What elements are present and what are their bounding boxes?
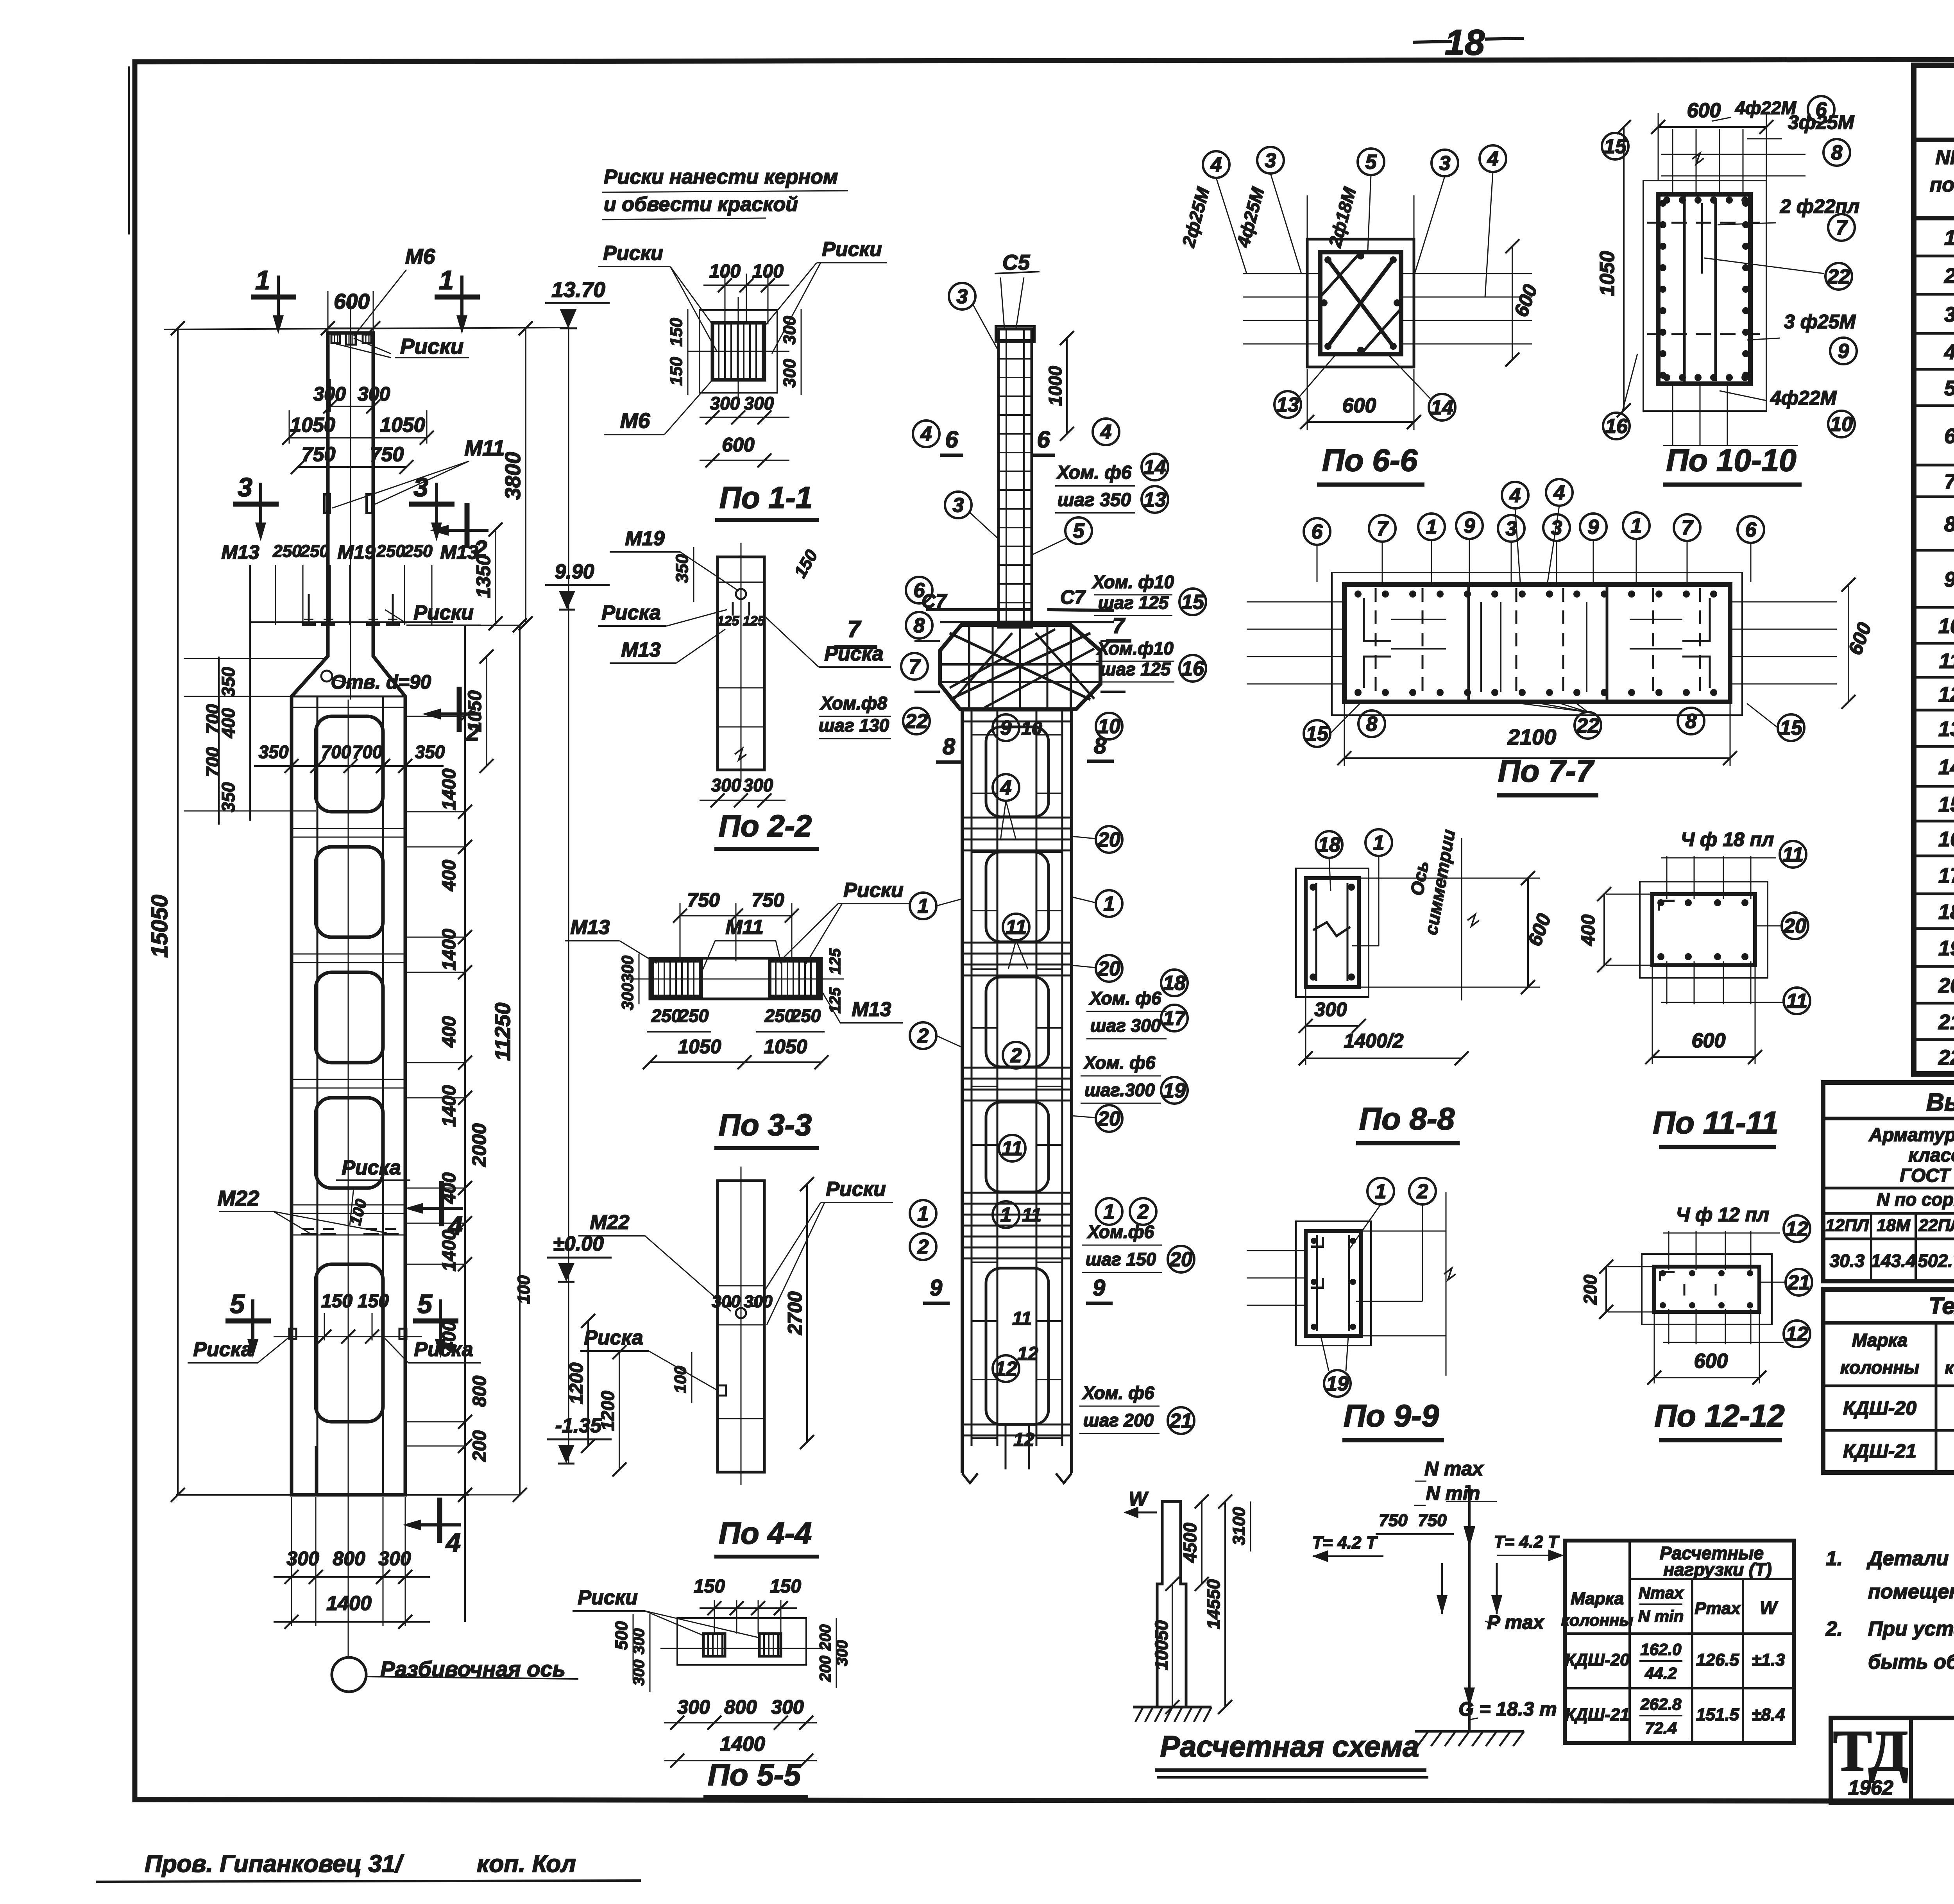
circle 20 right b — [1096, 955, 1122, 982]
svg-text:1050: 1050 — [380, 414, 425, 437]
svg-text:19: 19 — [1326, 1373, 1349, 1395]
svg-text:150: 150 — [321, 1291, 353, 1312]
svg-text:13.70: 13.70 — [551, 277, 605, 302]
svg-text:шаг.300: шаг.300 — [1084, 1080, 1155, 1100]
Po12-12 witness verticals bottom — [1668, 1309, 1669, 1344]
svg-text:6: 6 — [1312, 521, 1323, 543]
svg-text:М19: М19 — [337, 541, 375, 563]
svg-text:600: 600 — [722, 434, 755, 456]
svg-text:шаг 125: шаг 125 — [1100, 659, 1171, 679]
svg-text:21: 21 — [1787, 1271, 1810, 1294]
svg-text:2: 2 — [917, 1236, 929, 1258]
bottom stub outline — [315, 1446, 317, 1495]
circle 5 right — [1065, 517, 1092, 544]
svg-text:18: 18 — [1318, 834, 1340, 856]
svg-text:N min: N min — [1638, 1607, 1684, 1625]
svg-text:250: 250 — [272, 542, 302, 561]
svg-text:126.5: 126.5 — [1696, 1650, 1739, 1670]
svg-text:750: 750 — [370, 443, 404, 466]
svg-text:11: 11 — [1022, 1205, 1041, 1226]
level mark chain vertical — [568, 311, 569, 1464]
svg-text:1: 1 — [1000, 1204, 1012, 1226]
svg-text:помещены в выпуске I.: помещены в выпуске I. — [1868, 1580, 1954, 1603]
svg-text:1050: 1050 — [678, 1036, 721, 1058]
svg-text:300: 300 — [710, 393, 740, 413]
svg-text:5: 5 — [1944, 377, 1954, 400]
svg-text:300: 300 — [677, 1696, 710, 1718]
svg-text:150: 150 — [770, 1576, 801, 1597]
Po10-10 circle 16 — [1603, 413, 1630, 439]
svg-text:М13: М13 — [852, 998, 891, 1021]
svg-text:КДШ-21: КДШ-21 — [1843, 1440, 1916, 1462]
section Po10-10 outer rect — [1658, 194, 1750, 384]
svg-text:Риски: Риски — [843, 879, 904, 902]
svg-text:Риски: Риски — [578, 1586, 638, 1609]
svg-text:Расчетная схема: Расчетная схема — [1160, 1730, 1419, 1763]
Po10-10 inner verticals — [1683, 194, 1686, 384]
dimension 1350 vertical — [495, 530, 496, 623]
svg-text:3: 3 — [1944, 303, 1954, 326]
svg-text:200: 200 — [469, 1430, 490, 1462]
Po4-4 riska marks — [724, 1297, 730, 1306]
circle 11 on cage b — [999, 1135, 1025, 1161]
calc scheme ground left — [1133, 1706, 1211, 1709]
svg-text:Риски нанести керном: Риски нанести керном — [604, 166, 838, 188]
svg-text:4: 4 — [1553, 481, 1565, 504]
hole Otv d90 — [321, 671, 332, 682]
svg-text:250: 250 — [403, 542, 433, 561]
Po2-2 squiggle — [735, 748, 746, 760]
Po10-10 witness grid top — [1672, 129, 1673, 195]
svg-text:143.4: 143.4 — [1871, 1251, 1916, 1271]
svg-text:13: 13 — [1938, 718, 1954, 741]
wide part top inner lines — [292, 707, 405, 708]
svg-text:8: 8 — [1831, 141, 1843, 164]
tech-econ indicators table — [1823, 1290, 1954, 1473]
svg-text:17: 17 — [1938, 864, 1954, 888]
section mark 2 right upper — [465, 503, 470, 548]
Po8-8 dim 600 — [1527, 878, 1529, 987]
svg-text:7: 7 — [1836, 217, 1848, 239]
svg-text:11: 11 — [1786, 990, 1807, 1013]
svg-text:1200: 1200 — [566, 1362, 587, 1404]
svg-text:12ПЛ: 12ПЛ — [1825, 1216, 1869, 1235]
svg-text:Хом.ф8: Хом.ф8 — [820, 693, 888, 713]
opening 3 — [316, 972, 383, 1063]
section Po11-11 outer rect — [1652, 894, 1755, 965]
spec table title underline row line — [1914, 138, 1954, 142]
svg-text:Риска: Риска — [584, 1326, 643, 1349]
svg-text:14550: 14550 — [1203, 1579, 1224, 1629]
circle 2 right c — [1130, 1198, 1156, 1225]
Po6-6 dim 600 right — [1512, 246, 1513, 360]
svg-text:По 8-8: По 8-8 — [1359, 1101, 1455, 1136]
svg-text:125: 125 — [827, 948, 844, 974]
svg-text:коп. Кол: коп. Кол — [477, 1850, 576, 1877]
svg-text:Риска: Риска — [342, 1156, 401, 1179]
Po4-4 dim 2700 right — [806, 1184, 808, 1442]
anchor M11 marks on shaft — [324, 494, 330, 513]
svg-text:3: 3 — [1265, 149, 1276, 172]
svg-text:800: 800 — [469, 1376, 490, 1407]
svg-text:125 125: 125 125 — [717, 614, 766, 628]
svg-text:15: 15 — [1181, 591, 1204, 614]
svg-text:5: 5 — [417, 1289, 433, 1319]
svg-text:T= 4.2 Т: T= 4.2 Т — [1312, 1533, 1378, 1552]
Po7-7 right witness lines — [1730, 601, 1837, 603]
circle 21 right — [1168, 1407, 1194, 1434]
svg-text:3: 3 — [957, 285, 968, 308]
svg-text:14: 14 — [1143, 456, 1166, 479]
witness lines to right dim chain — [406, 716, 465, 717]
svg-text:Марка: Марка — [1852, 1330, 1907, 1350]
Po10-10 squiggle — [1692, 153, 1704, 164]
Po1-1 center dashdot — [688, 351, 789, 352]
svg-text:4500: 4500 — [1180, 1523, 1200, 1563]
svg-text:колонны: колонны — [1561, 1611, 1634, 1629]
svg-text:12: 12 — [1786, 1218, 1808, 1240]
svg-text:ТД: ТД — [1833, 1718, 1909, 1783]
svg-text:12: 12 — [995, 1358, 1017, 1380]
svg-text:4ф22М: 4ф22М — [1770, 387, 1837, 409]
svg-text:КДШ-21: КДШ-21 — [1565, 1705, 1630, 1724]
svg-text:2: 2 — [1417, 1180, 1428, 1203]
circle 4 right mid — [1093, 419, 1119, 445]
Po12-12 dim 200 left — [1605, 1267, 1607, 1312]
dimension 3800 vertical — [525, 328, 526, 623]
svg-text:22ПЛ: 22ПЛ — [1918, 1216, 1954, 1235]
Po9-9 circle 19 — [1324, 1370, 1351, 1397]
section mark 7 near Po2-2 — [834, 645, 877, 649]
calc scheme dim 14550 — [1224, 1501, 1226, 1707]
svg-text:3: 3 — [953, 494, 964, 517]
svg-text:T= 4.2 Т: T= 4.2 Т — [1494, 1532, 1559, 1551]
svg-text:3: 3 — [1439, 152, 1451, 175]
Po2-2 M19 tube mark — [736, 589, 746, 599]
svg-text:9: 9 — [930, 1275, 942, 1301]
svg-text:1400: 1400 — [720, 1733, 765, 1755]
svg-text:5: 5 — [1365, 151, 1377, 174]
svg-text:200: 200 — [817, 1625, 834, 1651]
svg-text:Риска: Риска — [601, 601, 660, 624]
svg-text:М6: М6 — [405, 244, 435, 268]
circle 22 left — [903, 708, 930, 734]
calc scheme right column line — [1468, 1485, 1471, 1731]
Po6-6 circle 14 — [1429, 394, 1455, 421]
svg-text:4: 4 — [1487, 148, 1499, 170]
cage rung bands — [962, 710, 1072, 712]
svg-text:300: 300 — [711, 775, 741, 795]
Po10-10 dashed mid lines — [1647, 222, 1763, 224]
Po9-9 inner bars — [1316, 1235, 1318, 1331]
svg-text:10050: 10050 — [1151, 1620, 1172, 1670]
level line top of column — [164, 327, 569, 329]
svg-text:6: 6 — [945, 426, 958, 453]
cage head inner bracing — [950, 633, 1090, 700]
svg-text:3 ф25М: 3 ф25М — [1784, 311, 1856, 333]
svg-text:4: 4 — [1509, 484, 1521, 507]
svg-text:М19: М19 — [625, 527, 664, 550]
cage head capital outline — [940, 625, 1100, 709]
svg-text:1400/2: 1400/2 — [1344, 1030, 1404, 1052]
svg-text:18: 18 — [1938, 900, 1954, 924]
svg-text:1: 1 — [1373, 832, 1385, 854]
svg-text:20: 20 — [1097, 957, 1120, 980]
Po4-4 dim 1200 left — [619, 1352, 620, 1469]
svg-text:250: 250 — [678, 1006, 709, 1026]
circle 1 left a — [910, 893, 936, 919]
svg-text:11: 11 — [1939, 650, 1954, 673]
Po7-7 bottom circles — [1304, 720, 1330, 747]
circle 7 head left — [901, 653, 928, 680]
cage bottom forks — [962, 1473, 978, 1483]
section Po8-8 outer rect — [1306, 878, 1359, 987]
svg-text:Ч ф 12 пл: Ч ф 12 пл — [1676, 1204, 1770, 1226]
Po6-6 top circles — [1203, 151, 1229, 178]
cage top column ladder — [998, 329, 1032, 627]
svg-text:500: 500 — [612, 1621, 631, 1650]
gap lines between openings — [292, 828, 405, 829]
circle 6 head left — [906, 577, 932, 603]
svg-text:М22: М22 — [590, 1211, 629, 1234]
section mark 1 left — [251, 295, 296, 300]
svg-text:8: 8 — [943, 734, 956, 759]
title block outer — [1831, 1718, 1954, 1803]
svg-text:502.7: 502.7 — [1918, 1251, 1954, 1271]
circle 4 on cage — [993, 774, 1019, 801]
svg-text:М11: М11 — [725, 916, 763, 939]
opening 2 — [316, 847, 383, 937]
svg-text:Nmax: Nmax — [1639, 1584, 1684, 1602]
svg-text:20: 20 — [1169, 1248, 1192, 1271]
svg-text:М13: М13 — [621, 639, 660, 661]
svg-text:W: W — [1129, 1488, 1149, 1510]
svg-text:6: 6 — [1944, 424, 1954, 448]
calc scheme dim 10050 — [1172, 1584, 1173, 1707]
svg-text:КДШ-20: КДШ-20 — [1843, 1397, 1916, 1419]
calc scheme dim 4500 — [1201, 1501, 1202, 1584]
right dim chain line — [464, 625, 466, 1622]
section Po6-6 outer square — [1307, 239, 1414, 367]
column axis line — [350, 297, 351, 700]
section mark 4 right lower — [437, 1498, 442, 1543]
calc scheme ground right — [1415, 1730, 1524, 1733]
svg-text:1050: 1050 — [764, 1036, 807, 1058]
svg-text:колонны: колонны — [1840, 1357, 1919, 1378]
svg-text:100: 100 — [671, 1366, 689, 1393]
Po11-11 bar dots — [1657, 899, 1664, 906]
svg-text:11250: 11250 — [490, 1002, 515, 1061]
svg-text:600: 600 — [334, 289, 370, 313]
svg-text:300: 300 — [358, 383, 390, 405]
haunch horizontal witness lines — [184, 658, 328, 659]
svg-text:и обвести краской: и обвести краской — [604, 193, 798, 216]
svg-text:8: 8 — [1944, 513, 1954, 536]
svg-text:4: 4 — [1210, 154, 1222, 176]
svg-text:6: 6 — [1037, 426, 1050, 453]
svg-text:1: 1 — [1426, 516, 1437, 539]
svg-text:600: 600 — [1342, 394, 1376, 417]
svg-text:11: 11 — [1006, 916, 1027, 939]
svg-text:7: 7 — [909, 655, 921, 678]
opening 4 — [316, 1098, 383, 1188]
circle 17 far right — [1161, 1005, 1188, 1031]
svg-text:Риски: Риски — [826, 1178, 886, 1201]
circle 12 on cage — [993, 1355, 1019, 1382]
circle 13 right — [1142, 486, 1168, 513]
svg-text:По 2-2: По 2-2 — [719, 809, 812, 843]
svg-text:Хом. ф6: Хом. ф6 — [1089, 988, 1161, 1008]
cage shaft outer double lines — [961, 709, 964, 1473]
svg-text:1.: 1. — [1826, 1547, 1843, 1570]
svg-text:4: 4 — [1000, 777, 1012, 799]
Po6-6 diagonals — [1328, 260, 1393, 346]
svg-text:По 6-6: По 6-6 — [1322, 443, 1418, 478]
level line top of wide part — [178, 766, 254, 766]
svg-text:250: 250 — [764, 1006, 795, 1026]
Po10-10 bottom witness lines — [1672, 385, 1673, 446]
svg-text:12: 12 — [1013, 1430, 1034, 1450]
svg-text:Хом. ф6: Хом. ф6 — [1083, 1052, 1156, 1073]
Po8-8 circles 18 1 — [1316, 831, 1342, 858]
svg-text:1: 1 — [1631, 515, 1642, 537]
svg-text:300: 300 — [744, 393, 774, 413]
svg-text:150: 150 — [667, 318, 686, 347]
svg-text:М11: М11 — [465, 436, 505, 460]
svg-text:44.2: 44.2 — [1644, 1664, 1677, 1682]
svg-text:150: 150 — [667, 357, 686, 386]
section Po9-9 outer rect — [1306, 1231, 1361, 1336]
svg-text:При установке трубок М19 и: При установке трубок М19 и М22 анкеры до… — [1868, 1618, 1954, 1640]
svg-text:9: 9 — [1588, 516, 1599, 539]
section mark 3 left — [233, 502, 279, 507]
svg-text:1962: 1962 — [1848, 1777, 1893, 1799]
svg-text:6: 6 — [1745, 519, 1757, 541]
Po6-6 witness lines — [1243, 273, 1320, 274]
svg-text:400: 400 — [1578, 914, 1599, 946]
svg-text:9: 9 — [1093, 1275, 1105, 1301]
Po10-10 circle 15 — [1602, 133, 1628, 159]
Po12-12 witness rect — [1642, 1254, 1772, 1324]
svg-text:1400: 1400 — [326, 1592, 372, 1615]
svg-text:1400: 1400 — [439, 1085, 460, 1127]
svg-text:20: 20 — [1097, 829, 1120, 851]
svg-text:300: 300 — [780, 359, 799, 388]
svg-text:750: 750 — [302, 443, 336, 466]
svg-text:Pmax: Pmax — [1695, 1599, 1741, 1618]
svg-text:700: 700 — [202, 747, 223, 777]
axis circle and label — [332, 1657, 366, 1692]
svg-text:9: 9 — [1944, 568, 1954, 591]
section mark 5 left — [225, 1319, 271, 1324]
svg-text:150: 150 — [694, 1576, 725, 1597]
svg-text:300: 300 — [313, 383, 346, 405]
svg-text:162.0: 162.0 — [1640, 1640, 1681, 1659]
svg-text:КДШ-20: КДШ-20 — [1565, 1650, 1630, 1670]
svg-text:30.3: 30.3 — [1830, 1251, 1865, 1271]
svg-text:400: 400 — [439, 1016, 460, 1048]
svg-text:шаг 130: шаг 130 — [819, 715, 889, 735]
svg-text:N min: N min — [1426, 1482, 1480, 1504]
svg-text:72.4: 72.4 — [1645, 1719, 1677, 1737]
svg-text:1: 1 — [255, 265, 270, 295]
steel table subheader band — [1823, 1187, 1954, 1190]
svg-text:12: 12 — [1017, 1344, 1038, 1364]
svg-text:4: 4 — [920, 423, 932, 446]
dimension 11250 vertical — [519, 625, 521, 1495]
Po9-9 witness lines — [1247, 1250, 1306, 1251]
svg-text:8: 8 — [1094, 733, 1107, 759]
circle 9 on cage — [993, 714, 1019, 741]
svg-text:NN: NN — [1935, 146, 1954, 169]
witness lines M13 group — [275, 565, 276, 625]
svg-text:1: 1 — [1944, 226, 1954, 250]
svg-text:151.5: 151.5 — [1696, 1705, 1739, 1724]
svg-text:150: 150 — [358, 1291, 389, 1312]
svg-text:G = 18.3 т: G = 18.3 т — [1458, 1698, 1557, 1720]
svg-text:18М: 18М — [1877, 1216, 1911, 1235]
svg-text:1050: 1050 — [290, 414, 335, 437]
svg-text:2700: 2700 — [784, 1291, 806, 1335]
left dim chain verticals — [177, 328, 179, 961]
Po12-12 hook — [1660, 1272, 1675, 1281]
svg-text:600: 600 — [1694, 1350, 1728, 1373]
circle 4 left mid — [913, 421, 939, 447]
svg-text:1050: 1050 — [465, 690, 485, 732]
Po6-6 corner bars — [1324, 256, 1331, 263]
svg-text:19: 19 — [1938, 937, 1954, 960]
Po12-12 bar dots and dashes — [1660, 1270, 1666, 1276]
section Po4-4 outline — [718, 1181, 764, 1472]
svg-text:21: 21 — [1938, 1011, 1954, 1034]
svg-text:200: 200 — [817, 1656, 834, 1682]
Po2-2 riska marks — [732, 602, 734, 616]
svg-text:М13: М13 — [570, 916, 610, 939]
Po7-7 dim 600 right — [1848, 585, 1849, 702]
svg-text:1000: 1000 — [1045, 366, 1065, 406]
svg-text:Риски: Риски — [603, 242, 663, 265]
svg-text:200: 200 — [1580, 1274, 1600, 1305]
circle 11 on cage — [1003, 914, 1029, 940]
cage shaft inner verticals — [997, 709, 998, 1446]
svg-text:100: 100 — [514, 1275, 533, 1304]
svg-text:2 ф22пл: 2 ф22пл — [1780, 195, 1859, 217]
svg-text:1: 1 — [918, 895, 929, 918]
svg-text:8: 8 — [1686, 710, 1697, 733]
dimension 15050 — [177, 328, 179, 1495]
section Po1-1 embedded plate — [712, 323, 764, 380]
svg-text:3800: 3800 — [501, 452, 525, 500]
Po7-7 left witness lines — [1247, 601, 1344, 603]
svg-text:P max: P max — [1487, 1611, 1545, 1633]
svg-text:2000: 2000 — [468, 1123, 490, 1167]
spec table row lines — [1914, 255, 1954, 258]
svg-text:11: 11 — [1012, 1308, 1032, 1329]
svg-text:По 5-5: По 5-5 — [708, 1757, 802, 1792]
svg-text:11: 11 — [1002, 1137, 1023, 1160]
section mark 2 right lower — [457, 687, 462, 732]
Po9-9 squiggle right — [1444, 1268, 1456, 1280]
svg-text:2: 2 — [917, 1025, 929, 1047]
cage openings — [986, 727, 1049, 817]
Po7-7 inner hooks — [1364, 598, 1391, 641]
svg-text:Выборка стали на коло: Выборка стали на колонну (кг) — [1926, 1088, 1954, 1116]
svg-text:250: 250 — [376, 542, 405, 561]
witness line bottom left — [178, 1494, 292, 1495]
lower solid segment outline — [316, 1264, 383, 1422]
svg-text:3: 3 — [238, 472, 252, 502]
dimension 1200 vertical — [587, 1321, 589, 1446]
